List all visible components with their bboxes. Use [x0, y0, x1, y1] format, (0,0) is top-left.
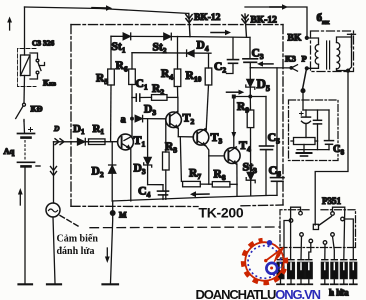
terminal BK dot — [305, 36, 309, 40]
svg-text:R3: R3 — [165, 141, 177, 155]
relay frame bracket — [18, 49, 37, 87]
TK-200 unit boundary box dash-dot — [71, 25, 283, 207]
stud contact 5 — [323, 241, 327, 260]
svg-text:St3: St3 — [243, 160, 258, 176]
svg-text:C8: C8 — [333, 144, 345, 157]
spark plug 6 — [331, 260, 338, 285]
svg-text:C1: C1 — [136, 78, 148, 92]
svg-text:a: a — [121, 115, 127, 126]
svg-text:T1: T1 — [134, 133, 146, 149]
switch KD — [16, 103, 26, 121]
ignition coil housing dash-dot box — [311, 31, 354, 72]
battery dotted link — [24, 141, 26, 161]
capacitor C5 — [260, 97, 274, 196]
capacitor C4 — [148, 185, 169, 200]
stud contact 2 — [291, 207, 303, 259]
svg-text:TK-200: TK-200 — [199, 205, 244, 221]
wire bias row D4 — [132, 52, 211, 55]
contact lever P to vibrator — [301, 70, 306, 110]
zener St1 on rail — [123, 33, 131, 40]
current chevrons down on sensor wire — [51, 167, 57, 176]
vibrator resistor — [291, 138, 318, 145]
capacitor inside vibrator — [314, 110, 322, 141]
stud contact 1 — [281, 219, 293, 260]
battery Aq cell 1 — [18, 128, 35, 138]
svg-text:C3: C3 — [252, 48, 264, 62]
coil HT terminal dot — [346, 69, 350, 73]
spark plug 7 — [340, 260, 347, 285]
svg-text:Cảm biến: Cảm biến — [57, 234, 99, 245]
svg-text:R10: R10 — [186, 70, 202, 84]
spark plug 8 — [350, 260, 357, 285]
contact K3 — [290, 65, 297, 71]
diode D2 vertical — [109, 142, 116, 201]
svg-text:R9: R9 — [237, 101, 249, 115]
resistor R6 with column — [129, 53, 136, 98]
stud contact 3 — [300, 233, 304, 260]
svg-text:R1: R1 — [93, 123, 105, 136]
relay C3-326 coil — [21, 55, 31, 76]
diode D5 zener — [246, 68, 255, 98]
svg-text:St1: St1 — [112, 41, 126, 55]
distributor rotor — [313, 216, 331, 229]
watermark needle red — [264, 247, 284, 263]
resistor R5 with column — [108, 36, 115, 141]
dashed separator line below box — [90, 226, 280, 229]
svg-text:D3: D3 — [144, 104, 156, 118]
ground bar sensor — [47, 283, 61, 285]
watermark dotted circle blue — [248, 246, 281, 279]
resistor R10 with column — [205, 53, 212, 130]
svg-text:C6: C6 — [269, 163, 282, 179]
svg-text:C3 326: C3 326 — [32, 39, 55, 48]
resistor R1 — [89, 139, 106, 145]
svg-text:D5: D5 — [257, 76, 270, 93]
zener D3 lower — [144, 119, 152, 185]
transistor T4 — [224, 147, 240, 185]
svg-text:D1: D1 — [73, 123, 85, 136]
capacitor C6 — [271, 68, 285, 195]
svg-text:Aq: Aq — [4, 146, 15, 156]
wire battery down to ground bar — [24, 166, 26, 283]
resistor R3 with column — [163, 119, 170, 200]
sensor circle — [46, 203, 60, 217]
battery Aq cell 2 — [18, 162, 41, 166]
transistor T2 — [166, 97, 182, 136]
wire sensor column up to D wire — [53, 142, 55, 203]
svg-text:R4: R4 — [161, 68, 173, 82]
wire collector node row — [232, 95, 266, 99]
current arrow on top wire — [92, 5, 112, 11]
current chevrons right on D wire — [55, 139, 64, 145]
top supply rail — [111, 36, 250, 37]
ground bar battery — [19, 283, 33, 285]
watermark small ring blue — [266, 263, 277, 274]
BK-12 terminal chevron 1 — [186, 14, 193, 37]
current arrow above rail — [211, 30, 231, 35]
spark plug 3 — [298, 260, 305, 285]
current arrow left above K3 wire — [257, 61, 273, 66]
emergency vibrator unit dash-dot box — [289, 100, 339, 161]
ground symbol vibrator — [297, 145, 312, 157]
capacitor C1 — [132, 94, 152, 101]
svg-text:R7: R7 — [189, 168, 201, 182]
spark plug 2 — [288, 260, 295, 285]
svg-text:Kкв: Kкв — [43, 79, 57, 88]
stud contact 7 — [331, 207, 345, 259]
current arrow down near M wire — [105, 248, 110, 263]
wire top feed from relay to BK-12 terminal 1 — [25, 7, 189, 14]
zener St3 — [246, 172, 255, 195]
stud contact 8 — [341, 217, 354, 259]
current arrow right above collector node row — [227, 90, 245, 95]
capacitor C3 — [243, 37, 258, 67]
svg-text:DOANCHATLUONG.VN: DOANCHATLUONG.VN — [196, 287, 321, 300]
wire sensor to ground bar — [53, 217, 55, 283]
spark plug 5 — [321, 260, 328, 285]
wire cap column to bottom — [317, 141, 319, 150]
node M dot and wire to ground — [110, 201, 115, 283]
watermark gear ring red — [243, 240, 286, 283]
callout dashes to sensor label — [60, 216, 78, 227]
svg-text:đánh lửa: đánh lửa — [57, 246, 95, 257]
svg-text:C4: C4 — [138, 184, 151, 200]
wire top right to BK terminal — [245, 7, 307, 36]
svg-text:M: M — [119, 211, 127, 220]
coil frame terminal bracket — [348, 34, 356, 70]
bottom rail — [112, 195, 277, 201]
T4 collector column with arrow — [231, 97, 236, 148]
spark plug 4 — [305, 260, 312, 285]
svg-text:BK-12: BK-12 — [251, 16, 278, 26]
svg-text:BK-12: BK-12 — [194, 13, 221, 23]
capacitor C8 — [325, 110, 334, 150]
svg-text:T3: T3 — [211, 130, 223, 146]
resistor R7 — [180, 137, 212, 187]
svg-text:C5: C5 — [268, 130, 281, 146]
wire relay to switch KD — [23, 76, 26, 104]
capacitor C2 — [227, 37, 239, 73]
svg-text:R2: R2 — [152, 83, 164, 97]
wire D row from sensor to T1 — [54, 141, 118, 143]
svg-text:R8: R8 — [214, 169, 226, 183]
svg-text:D4: D4 — [197, 40, 209, 54]
stud contact 4 — [309, 239, 313, 259]
diode D4 — [187, 50, 194, 57]
node a column and label — [131, 98, 134, 137]
svg-text:P: P — [302, 54, 307, 64]
resistor R4 with column — [174, 37, 181, 98]
transistor T3 — [193, 129, 209, 156]
svg-text:K3: K3 — [285, 54, 296, 64]
coil primary winding — [307, 38, 319, 68]
svg-text:R5: R5 — [96, 73, 108, 87]
svg-text:h lửa: h lửa — [329, 288, 349, 298]
transistor T1 — [118, 134, 134, 201]
BK-12 terminal chevron 2 — [242, 14, 249, 37]
svg-text:P351: P351 — [322, 196, 341, 206]
svg-text:R6: R6 — [116, 60, 128, 74]
wire K3 output row — [250, 67, 290, 69]
wire switch to battery — [23, 121, 26, 133]
relay contact Kkv — [30, 53, 45, 79]
coil secondary winding — [337, 37, 352, 71]
coil core — [327, 41, 330, 69]
svg-text:T4: T4 — [239, 138, 251, 154]
label Cam bien danh lua — [57, 234, 99, 258]
capacitor C7 electrolytic — [300, 110, 311, 138]
current arrow on top right wire — [270, 4, 288, 9]
current arrow left on bottom rail — [190, 191, 209, 197]
resistor R9 — [247, 97, 254, 173]
resistor R8 — [212, 182, 237, 196]
svg-text:D: D — [53, 124, 60, 133]
svg-text:KĐ: KĐ — [31, 105, 43, 114]
wire T2 emitter to T3 base — [178, 136, 193, 138]
current arrow up-left indicator — [7, 17, 12, 31]
wire relay column — [24, 7, 26, 55]
distributor P351 dash-dot box — [280, 210, 356, 248]
vibrator bottom wire — [297, 149, 329, 151]
vibrator internal top wire — [303, 109, 329, 111]
svg-text:бик: бик — [317, 12, 330, 26]
current arrow up on battery wire — [18, 188, 23, 205]
resistor R2 — [152, 95, 178, 101]
svg-text:D2: D2 — [92, 166, 104, 180]
watermark blue dot — [267, 240, 273, 246]
diode D1 — [78, 138, 86, 145]
svg-text:BK: BK — [288, 34, 302, 44]
diode D3 horizontal — [135, 115, 166, 121]
stud contact 6 — [331, 233, 335, 260]
zener St2 on rail — [164, 33, 172, 40]
wire T4 base row and column to R7R8 — [209, 156, 224, 184]
ground bar M — [103, 283, 119, 285]
spark plug 1 — [277, 260, 284, 285]
svg-text:T2: T2 — [183, 111, 195, 127]
svg-text:C2: C2 — [214, 61, 226, 75]
HT wire coil to distributor — [315, 73, 348, 225]
terminal P dot — [305, 66, 309, 70]
watermark circle red — [245, 242, 284, 281]
